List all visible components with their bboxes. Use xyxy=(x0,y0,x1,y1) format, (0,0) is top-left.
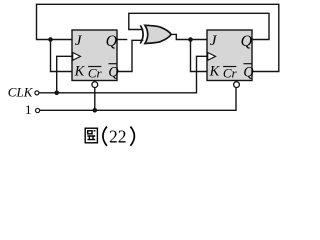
node CLK input terminal xyxy=(35,91,39,95)
flip-flop U1 Cr bubble xyxy=(92,82,98,88)
caption (22) xyxy=(103,127,107,146)
svg-text:K: K xyxy=(209,64,221,80)
flip-flop U1 body xyxy=(72,30,117,81)
flip-flop U1 clock triangle xyxy=(73,53,81,61)
node junction dot FF1 Cr on logic-1 rail xyxy=(93,108,98,113)
wire FF1 Q stub xyxy=(117,39,127,41)
wire FF1 Cr riser to logic-1 rail xyxy=(94,88,96,111)
wire FF1 clock riser xyxy=(57,56,72,93)
xor gate G1 input arc xyxy=(140,25,143,43)
flip-flop U2 clock triangle xyxy=(208,53,216,61)
svg-text:Q: Q xyxy=(241,33,253,50)
svg-text:Cr: Cr xyxy=(88,65,103,80)
svg-text:Q: Q xyxy=(108,65,118,81)
svg-text:1: 1 xyxy=(25,102,32,117)
caption figure 22 CJK glyph xyxy=(85,128,97,143)
flip-flop U2 body xyxy=(207,30,252,81)
svg-text:Q: Q xyxy=(243,65,253,81)
wire FF1 K tie branch xyxy=(51,40,73,72)
flip-flop U2 Cr bubble xyxy=(234,82,240,88)
svg-text:Cr: Cr xyxy=(223,65,238,80)
node junction dot FF1 clock on CLK rail xyxy=(54,91,59,96)
node junction dot XOR output J2/K2 tie xyxy=(188,37,193,42)
svg-text:22: 22 xyxy=(109,126,127,146)
svg-text:CLK: CLK xyxy=(8,85,34,100)
xor gate G1 body xyxy=(145,25,171,43)
svg-text:Q: Q xyxy=(106,33,118,50)
wire XOR output to FF2 J xyxy=(172,34,208,39)
wire CLK rail to FF2 clock xyxy=(39,56,207,93)
wire FF2 K tie branch xyxy=(191,40,208,72)
svg-text:K: K xyxy=(74,64,86,80)
node logic-1 input terminal xyxy=(36,108,40,112)
wire FF1 Qbar to XOR bottom input xyxy=(117,40,143,71)
wire outer feedback top rail (Q2bar to FF1) xyxy=(37,4,279,71)
wire inner feedback rail (Q2 to XOR top input) xyxy=(129,13,269,39)
wire logic-1 rail xyxy=(40,88,236,111)
node junction dot J1/K1 tie xyxy=(48,37,53,42)
